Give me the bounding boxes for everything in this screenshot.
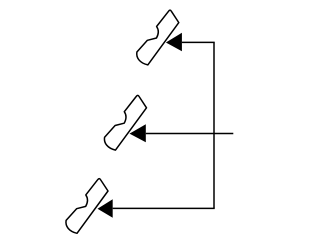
arrowhead to phone 3	[98, 199, 113, 218]
arrowhead to phone 2	[130, 124, 146, 142]
wire: middle branch	[146, 133, 234, 135]
arrowhead to phone 1	[166, 33, 182, 52]
wire: top branch	[182, 41, 215, 43]
wire: bottom branch	[113, 207, 215, 209]
phone 3 (bottom handset)	[66, 179, 108, 234]
wire: vertical bus	[213, 42, 215, 208]
phone 1 (top handset)	[137, 10, 179, 65]
phone 2 (middle handset)	[104, 95, 146, 150]
